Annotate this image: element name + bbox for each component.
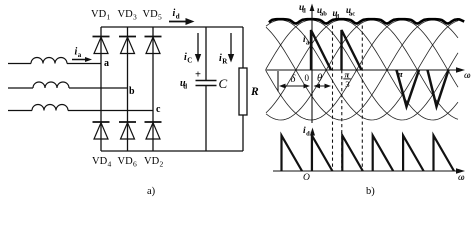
- svg-text:O: O: [303, 173, 310, 183]
- svg-text:VD: VD: [144, 156, 160, 167]
- svg-text:VD: VD: [118, 9, 134, 20]
- svg-text:ab: ab: [320, 11, 327, 18]
- svg-text:a: a: [104, 58, 109, 69]
- svg-text:t: t: [467, 72, 469, 80]
- svg-text:VD: VD: [143, 9, 159, 20]
- svg-text:ac: ac: [349, 11, 355, 18]
- svg-text:C: C: [219, 76, 228, 91]
- svg-text:a: a: [78, 51, 82, 59]
- svg-text:VD: VD: [91, 9, 107, 20]
- svg-text:R: R: [250, 86, 259, 98]
- svg-text:π: π: [398, 69, 403, 79]
- svg-text:VD: VD: [92, 156, 108, 167]
- svg-text:3: 3: [345, 79, 350, 89]
- svg-text:π: π: [345, 69, 350, 79]
- svg-text:5: 5: [158, 13, 162, 22]
- svg-text:1: 1: [107, 13, 111, 22]
- svg-text:0: 0: [305, 73, 310, 83]
- svg-text:t: t: [461, 174, 463, 182]
- svg-text:d: d: [302, 8, 306, 15]
- svg-text:6: 6: [133, 160, 137, 169]
- svg-text:b: b: [129, 86, 135, 97]
- svg-text:d: d: [183, 83, 187, 91]
- svg-text:a): a): [147, 186, 156, 197]
- svg-text:d: d: [306, 131, 310, 138]
- svg-text:θ: θ: [317, 73, 322, 84]
- svg-text:VD: VD: [118, 156, 134, 167]
- svg-text:C: C: [187, 57, 192, 65]
- svg-text:b): b): [366, 186, 375, 197]
- svg-text:d: d: [176, 13, 180, 21]
- svg-text:4: 4: [108, 160, 112, 169]
- svg-text:3: 3: [133, 13, 137, 22]
- svg-text:c: c: [156, 104, 161, 115]
- svg-text:d: d: [336, 14, 340, 21]
- svg-text:2: 2: [160, 160, 164, 169]
- svg-text:+: +: [195, 70, 201, 81]
